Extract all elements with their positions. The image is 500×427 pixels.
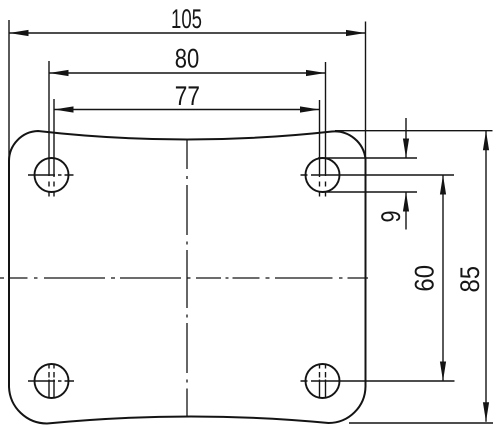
crosshair hole bottom-left	[28, 380, 74, 382]
extension line 105 right	[365, 22, 367, 160]
center line horizontal (plate)	[0, 277, 368, 279]
svg-text:60: 60	[410, 265, 440, 292]
svg-text:85: 85	[455, 266, 485, 293]
arrow 77 left	[54, 106, 74, 112]
dimension line 60	[442, 175, 444, 381]
svg-text:80: 80	[175, 44, 200, 74]
hole bottom-left	[35, 364, 69, 398]
arrow 80 left	[49, 70, 69, 76]
svg-text:105: 105	[171, 4, 202, 34]
arrow 80 right	[306, 70, 326, 76]
arrow 105 left	[9, 30, 29, 36]
svg-text:77: 77	[175, 81, 200, 111]
arrow 105 right	[346, 30, 366, 36]
extension line hole top tangent (for 9)	[318, 157, 417, 159]
dimension line 85	[485, 131, 487, 422]
crosshair hole bottom-right	[301, 380, 455, 382]
extension line bottom edge (for 85)	[349, 422, 493, 424]
hole top-right	[306, 158, 340, 192]
extension line 80 right	[325, 62, 327, 176]
center line vertical (plate)	[186, 140, 188, 416]
arrow 60 bottom	[440, 362, 446, 382]
extension line top edge (for 85 and 9)	[335, 130, 493, 132]
arrow 77 right	[300, 106, 320, 112]
extension line 105 left	[8, 20, 10, 161]
dimension line 9	[405, 118, 407, 230]
svg-text:9: 9	[376, 211, 406, 223]
extension line 77 left	[53, 99, 55, 177]
arrow 9 lower	[403, 192, 409, 212]
crosshair hole top-right	[301, 174, 455, 176]
arrow 85 bottom	[483, 402, 489, 422]
arrow 85 top	[483, 131, 489, 151]
hole top-left	[35, 158, 69, 192]
dimension line 80	[49, 72, 326, 74]
extension line hole bottom tangent (for 9)	[322, 191, 417, 193]
extension line 80 left	[48, 61, 50, 176]
dimension line 77	[54, 109, 320, 111]
arrow 9 upper	[403, 139, 409, 159]
plate outline	[9, 131, 366, 424]
crosshair hole top-left	[28, 174, 74, 176]
dimension line 105	[9, 32, 366, 34]
arrow 60 top	[440, 175, 446, 195]
extension line 77 right	[319, 100, 321, 177]
hole bottom-right	[306, 364, 340, 398]
